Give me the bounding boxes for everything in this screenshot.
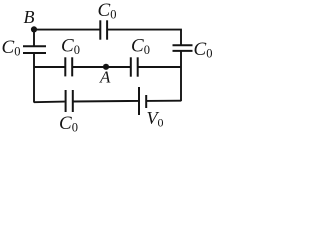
- svg-text:C0: C0: [61, 35, 80, 57]
- node B: [31, 26, 37, 32]
- wire left rail lower (left capacitor to bottom-left corner): [33, 53, 35, 103]
- wire middle-center (first middle capacitor to node A): [72, 66, 130, 68]
- capacitor C0 top: [100, 20, 107, 39]
- wire top-right (top capacitor to right rail): [107, 29, 182, 31]
- svg-text:A: A: [99, 68, 111, 87]
- node A: [103, 64, 109, 70]
- wire top-left (B to top capacitor): [34, 29, 100, 31]
- wire bottom-right (battery to bottom-right corner): [146, 100, 181, 102]
- svg-text:B: B: [24, 7, 35, 27]
- wire right rail lower (right capacitor to bottom-right corner): [180, 51, 182, 101]
- capacitor C0 middle-right: [131, 57, 138, 76]
- svg-text:C0: C0: [194, 39, 213, 61]
- wire left rail upper (B to left capacitor): [33, 30, 35, 46]
- battery V0: [139, 87, 146, 115]
- svg-text:C0: C0: [131, 35, 150, 57]
- wire bottom-left (bottom-left corner to bottom capacitor): [34, 101, 65, 104]
- wire middle-left (left rail to first middle capacitor): [34, 66, 65, 68]
- svg-text:C0: C0: [98, 0, 117, 21]
- capacitor C0 bottom: [66, 90, 73, 112]
- svg-text:C0: C0: [59, 113, 78, 135]
- wire bottom-middle (bottom capacitor to battery): [73, 100, 138, 103]
- wire middle-right (second middle capacitor to right rail): [138, 66, 181, 68]
- capacitor C0 left: [23, 46, 46, 53]
- svg-text:C0: C0: [2, 37, 21, 59]
- capacitor C0 right: [173, 45, 193, 51]
- wire right rail upper (top-right corner to right capacitor): [180, 30, 182, 45]
- capacitor C0 middle-left: [65, 57, 72, 76]
- svg-text:V0: V0: [147, 108, 164, 130]
